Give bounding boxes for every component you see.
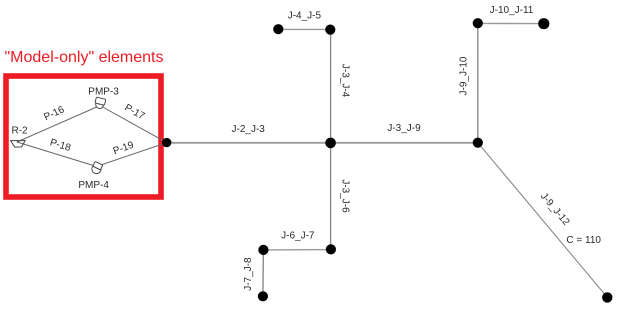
- pipe J-10_J-11: [478, 22, 544, 24]
- svg-text:P-17: P-17: [123, 102, 147, 122]
- junction J-6: [326, 244, 336, 254]
- pump PMP-4: [90, 161, 103, 175]
- junction J-12: [602, 292, 612, 302]
- red callout box: [6, 76, 161, 197]
- svg-text:C = 110: C = 110: [566, 235, 601, 246]
- pump PMP-3: [94, 97, 106, 110]
- svg-text:J-10_J-11: J-10_J-11: [490, 5, 534, 16]
- junction J-10: [473, 18, 483, 28]
- pipe P-18: [17, 142, 97, 167]
- junction J-5: [273, 24, 283, 34]
- svg-text:R-2: R-2: [12, 126, 29, 137]
- pipe J-9_J-12: [478, 143, 608, 298]
- pipe P-19: [97, 143, 167, 167]
- pipe J-4_J-5: [278, 28, 330, 30]
- svg-text:PMP-3: PMP-3: [88, 86, 119, 97]
- pipe J-2_J-3: [167, 142, 331, 144]
- pipe J-7_J-8: [262, 250, 265, 296]
- junction J-2: [162, 138, 171, 147]
- pipe J-6_J-7: [263, 249, 330, 251]
- junction J-8: [258, 291, 268, 301]
- svg-text:"Model-only" elements: "Model-only" elements: [5, 49, 164, 66]
- junction J-3: [325, 138, 336, 149]
- svg-text:J-3_J-6: J-3_J-6: [340, 179, 351, 213]
- svg-text:P-18: P-18: [49, 137, 73, 154]
- junction J-11: [538, 18, 549, 29]
- junction J-7: [258, 245, 268, 255]
- reservoir R-2: [11, 141, 26, 148]
- svg-text:J-7_J-8: J-7_J-8: [243, 257, 254, 291]
- svg-text:J-4_J-5: J-4_J-5: [288, 11, 322, 22]
- svg-text:PMP-4: PMP-4: [78, 180, 109, 191]
- pipe J-9_J-10: [477, 23, 479, 142]
- pipe J-3_J-9: [331, 142, 478, 144]
- svg-text:P-16: P-16: [42, 104, 66, 123]
- pipe P-16: [17, 106, 100, 143]
- svg-text:J-3_J-4: J-3_J-4: [340, 64, 351, 98]
- svg-text:J-3_J-9: J-3_J-9: [387, 123, 421, 134]
- junction J-9: [473, 138, 483, 148]
- junction J-4: [325, 25, 335, 35]
- svg-text:J-9_J-10: J-9_J-10: [458, 56, 469, 95]
- pipe P-17: [100, 106, 167, 143]
- pipe J-3_J-4: [330, 29, 332, 142]
- svg-text:J-6_J-7: J-6_J-7: [281, 230, 315, 241]
- svg-text:J-2_J-3: J-2_J-3: [232, 124, 266, 135]
- svg-text:J-9_J-12: J-9_J-12: [538, 191, 572, 228]
- pipe J-3_J-6: [330, 143, 332, 250]
